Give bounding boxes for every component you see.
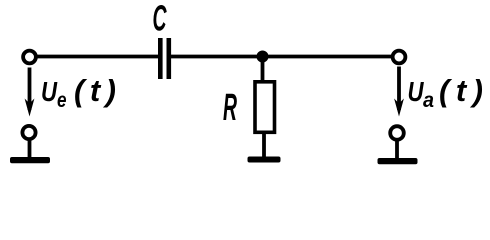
svg-text:(t): (t) — [74, 73, 121, 108]
svg-text:R: R — [223, 87, 237, 129]
svg-text:U: U — [41, 76, 58, 107]
svg-text:e: e — [57, 89, 67, 112]
svg-text:a: a — [423, 89, 434, 112]
svg-text:C: C — [153, 0, 168, 39]
svg-text:(t): (t) — [439, 73, 489, 108]
svg-text:U: U — [408, 76, 425, 107]
